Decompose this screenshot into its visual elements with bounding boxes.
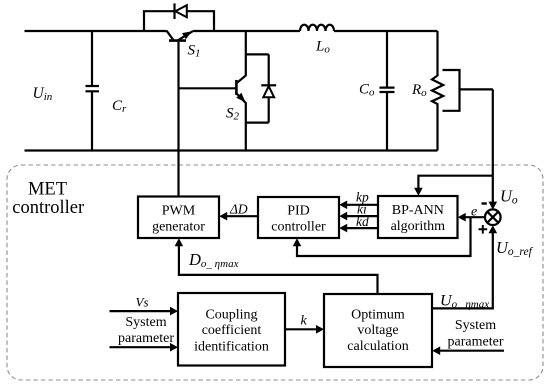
wire: Uo_nmax from Optimum box to summing + input	[432, 228, 493, 309]
plus sign	[479, 225, 488, 234]
block Optimum voltage calculation	[324, 294, 432, 367]
svg-text:generator: generator	[152, 220, 205, 235]
arrow kd	[342, 227, 378, 229]
svg-text:MET: MET	[28, 179, 67, 199]
wire: top rail left section	[25, 30, 166, 32]
wire: bottom rail	[25, 149, 438, 151]
svg-text:Do_ ηmax: Do_ ηmax	[188, 250, 239, 270]
arrow k Coupling to Optimum	[285, 328, 321, 330]
arrow System parameter into Optimum box	[435, 350, 504, 352]
wire: branch to BP-ANN top	[418, 176, 492, 193]
block PID controller	[258, 197, 339, 238]
svg-text:Uo: Uo	[500, 187, 518, 207]
svg-text:coefficient: coefficient	[202, 323, 262, 338]
wire: S1/S2 gate drive line down to PWM	[177, 42, 179, 197]
svg-text:Uo_ref: Uo_ref	[496, 238, 534, 258]
svg-text:controller: controller	[12, 198, 84, 218]
svg-text:S1: S1	[188, 43, 201, 60]
arrow kp	[342, 204, 378, 206]
svg-text:Uo_ ηmax: Uo_ ηmax	[440, 293, 489, 311]
arrow ki	[342, 215, 378, 217]
resistor Ro	[432, 31, 443, 151]
svg-text:S2: S2	[226, 106, 240, 123]
minus sign	[482, 202, 487, 204]
svg-text:PWM: PWM	[162, 204, 196, 219]
arrow dD PID to PWM	[222, 215, 258, 217]
wire: S2 base lead	[179, 87, 237, 89]
svg-text:Vs: Vs	[136, 295, 149, 310]
wire: top rail right section	[193, 30, 301, 32]
capacitor Co	[380, 31, 395, 151]
svg-text:algorithm: algorithm	[391, 219, 446, 234]
capacitor Cr	[86, 31, 100, 151]
svg-text:System: System	[455, 318, 496, 333]
svg-text:Optimum: Optimum	[351, 308, 405, 323]
svg-text:voltage: voltage	[357, 323, 398, 338]
svg-text:identification: identification	[194, 339, 269, 354]
wire: Uo vertical down to summing junction	[492, 89, 494, 206]
block BP-ANN algorithm	[378, 196, 458, 238]
transistor S1	[165, 31, 193, 41]
svg-text:ΔD: ΔD	[229, 202, 248, 217]
diode D2 (points up)	[261, 85, 276, 97]
block PWM generator	[138, 197, 219, 239]
summing junction	[485, 209, 501, 225]
arrow e to BP-ANN	[461, 216, 486, 218]
wire: e feedback branch to PID bottom	[297, 217, 471, 256]
diode loop beside S2	[246, 54, 269, 122]
svg-text:parameter: parameter	[448, 334, 504, 349]
svg-text:kd: kd	[356, 214, 369, 229]
svg-text:parameter: parameter	[118, 331, 174, 346]
svg-text:Lo: Lo	[315, 39, 330, 56]
wire: top rail after inductor to Ro branch	[334, 30, 438, 32]
svg-text:PID: PID	[287, 204, 310, 219]
svg-text:Cr: Cr	[112, 98, 127, 115]
svg-text:BP-ANN: BP-ANN	[392, 203, 444, 218]
diode loop over S1	[144, 11, 214, 31]
arrow Vs into Coupling box	[110, 310, 176, 312]
svg-text:k: k	[301, 314, 308, 329]
svg-text:calculation: calculation	[347, 339, 408, 354]
wire: sense output to Uo line	[460, 88, 493, 90]
transistor S2	[236, 31, 246, 151]
block Coupling coefficient identification	[178, 293, 285, 366]
svg-text:Coupling: Coupling	[205, 307, 257, 322]
svg-text:System: System	[125, 315, 166, 330]
arrow System parameter into Coupling box	[110, 346, 176, 348]
wire: Do_nmax from Optimum box to PWM bottom	[179, 241, 378, 294]
svg-text:controller: controller	[271, 220, 326, 235]
svg-text:Ro: Ro	[411, 82, 427, 99]
svg-text:Co: Co	[359, 82, 375, 99]
svg-text:Uin: Uin	[33, 85, 53, 103]
inductor Lo	[300, 25, 334, 31]
diode D1 (points left)	[175, 3, 187, 19]
dashed MET controller boundary	[7, 165, 543, 380]
sense bracket around Ro	[443, 70, 460, 111]
